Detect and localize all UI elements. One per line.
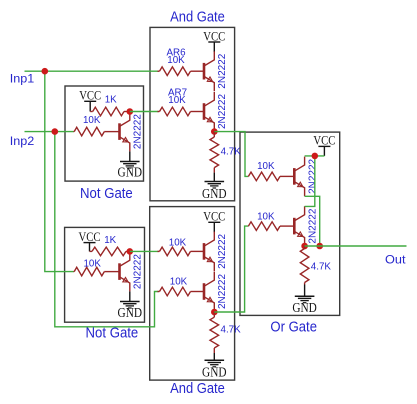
wire top AND output to OR gate	[214, 132, 248, 177]
transistor Q1 2N2222 top AND gate	[204, 51, 228, 91]
resistor 10K bottom NOT gate	[74, 259, 120, 276]
VCC symbol top NOT gate	[79, 88, 101, 112]
enclosure box: bottom NOT gate	[65, 227, 145, 322]
svg-text:2N2222: 2N2222	[217, 94, 228, 129]
ground bottom NOT gate	[118, 291, 143, 320]
wire top NOT output to AR7	[130, 111, 159, 113]
resistor 4.7K OR gate	[300, 246, 331, 285]
svg-text:10K: 10K	[170, 277, 188, 288]
svg-text:1K: 1K	[105, 95, 117, 106]
ground top NOT gate	[118, 151, 143, 179]
svg-text:Not Gate: Not Gate	[86, 325, 139, 341]
svg-text:2N2222: 2N2222	[217, 234, 228, 269]
svg-text:10K: 10K	[168, 95, 186, 106]
ground top AND gate	[202, 173, 227, 202]
node top AND gate output	[211, 128, 218, 135]
label Inp1	[10, 71, 35, 85]
svg-text:4.7K: 4.7K	[221, 324, 242, 335]
svg-text:10K: 10K	[83, 259, 101, 270]
svg-text:Not Gate: Not Gate	[80, 186, 133, 202]
svg-text:2N2222: 2N2222	[308, 208, 319, 243]
enclosure box: top AND gate	[150, 27, 235, 200]
svg-text:10K: 10K	[257, 161, 275, 172]
svg-text:VCC: VCC	[203, 28, 225, 43]
wire Inp2 drop to bottom AND gate	[55, 132, 159, 327]
wire OR Q1 collector to VCC	[305, 155, 325, 157]
resistor AR6 10K	[158, 48, 205, 76]
resistor AR7 10K	[158, 87, 205, 116]
node top NOT gate output	[127, 108, 134, 115]
wire Inp2 horizontal to top NOT gate	[25, 131, 74, 133]
resistor 10K top NOT gate	[74, 115, 120, 136]
wire Inp1 drop to bottom NOT gate	[45, 71, 74, 271]
svg-text:GND: GND	[118, 165, 143, 180]
node OR output right	[316, 243, 323, 250]
node bottom NOT gate output	[127, 248, 134, 255]
wire bottom AND output to OR gate	[214, 226, 248, 312]
enclosure box: top NOT gate	[65, 86, 144, 181]
svg-text:10K: 10K	[167, 55, 185, 66]
ground OR gate	[292, 285, 317, 316]
wire bottom NOT output to bottom AND	[130, 250, 159, 252]
svg-text:4.7K: 4.7K	[311, 261, 332, 272]
resistor 4.7K top AND gate	[210, 132, 241, 173]
svg-text:GND: GND	[118, 305, 143, 320]
label Out	[385, 252, 406, 266]
transistor Q2 2N2222 OR gate	[294, 206, 318, 246]
node bottom AND gate output	[211, 309, 218, 316]
resistor 10K upper bottom AND gate	[158, 238, 205, 256]
resistor 10K lower bottom AND gate	[158, 277, 205, 296]
node OR gate VCC junction	[312, 153, 319, 160]
svg-text:VCC: VCC	[79, 88, 101, 103]
ground bottom AND gate	[202, 353, 227, 379]
wire Inp1 horizontal to AND gate	[25, 70, 159, 72]
transistor 2N2222 top NOT gate	[120, 112, 144, 152]
svg-text:10K: 10K	[83, 115, 101, 126]
svg-text:VCC: VCC	[203, 209, 225, 224]
svg-text:Or Gate: Or Gate	[270, 320, 317, 336]
svg-text:10K: 10K	[257, 211, 275, 222]
resistor 1K top NOT gate	[90, 95, 130, 116]
enclosure box: OR gate	[240, 132, 340, 315]
transistor Q1 2N2222 bottom AND gate	[204, 232, 228, 272]
VCC symbol bottom AND gate	[203, 209, 225, 233]
transistor 2N2222 bottom NOT gate	[120, 252, 144, 292]
resistor 1K bottom NOT gate	[90, 235, 130, 256]
resistor 4.7K bottom AND gate	[210, 312, 241, 353]
svg-text:2N2222: 2N2222	[133, 254, 144, 289]
svg-text:4.7K: 4.7K	[221, 147, 242, 158]
wire VCC down to OR Q2 collector	[305, 156, 315, 207]
transistor Q2 2N2222 top AND gate	[204, 92, 228, 132]
svg-text:GND: GND	[292, 300, 317, 315]
svg-text:Inp2: Inp2	[10, 134, 35, 148]
node Inp2 junction	[52, 128, 59, 135]
transistor Q1 2N2222 OR gate	[294, 157, 318, 197]
svg-text:GND: GND	[202, 364, 227, 379]
wire OR Q1 emitter to output	[305, 196, 320, 246]
svg-text:GND: GND	[202, 186, 227, 201]
svg-text:2N2222: 2N2222	[133, 114, 144, 149]
VCC symbol bottom NOT gate	[79, 229, 101, 251]
label Inp2	[10, 134, 35, 148]
svg-text:And Gate: And Gate	[170, 381, 225, 397]
svg-text:2N2222: 2N2222	[217, 274, 228, 309]
node OR output left	[301, 243, 308, 250]
label bottom Not Gate	[86, 325, 139, 341]
resistor 10K upper OR gate	[248, 161, 294, 181]
VCC symbol OR gate	[313, 133, 335, 156]
wire Out	[305, 245, 407, 247]
svg-text:Out: Out	[385, 252, 406, 266]
svg-text:And Gate: And Gate	[170, 9, 225, 25]
resistor 10K lower OR gate	[248, 211, 294, 230]
transistor Q2 2N2222 bottom AND gate	[204, 272, 228, 312]
svg-text:Inp1: Inp1	[10, 71, 35, 85]
label top Not Gate	[80, 186, 133, 202]
node Inp1 junction	[42, 68, 49, 75]
svg-text:2N2222: 2N2222	[217, 53, 228, 88]
svg-text:2N2222: 2N2222	[308, 159, 319, 194]
svg-text:VCC: VCC	[313, 133, 335, 148]
svg-text:1K: 1K	[104, 235, 116, 246]
svg-text:VCC: VCC	[79, 229, 101, 244]
svg-text:10K: 10K	[169, 238, 187, 249]
enclosure box: bottom AND gate	[150, 207, 235, 381]
label Or Gate	[270, 320, 317, 336]
VCC symbol top AND gate	[203, 28, 225, 52]
label bottom And Gate	[170, 381, 225, 397]
label top And Gate	[170, 9, 225, 25]
